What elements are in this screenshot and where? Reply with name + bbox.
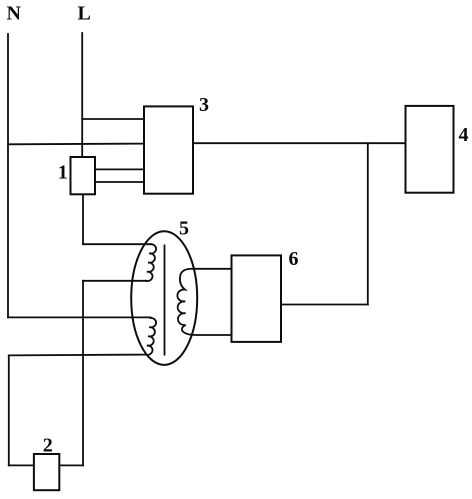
wire box3 to box4: [193, 142, 406, 144]
transformer ellipse 5: [131, 231, 197, 365]
wire upper winding bottom to corner: [83, 280, 146, 282]
wire right vertical drop: [367, 143, 369, 304]
svg-text:2: 2: [43, 435, 53, 457]
svg-text:5: 5: [179, 218, 189, 240]
svg-text:1: 1: [58, 161, 68, 183]
wire L to box3: [82, 118, 144, 120]
box 2: [34, 454, 59, 490]
winding secondary: [177, 269, 231, 335]
box 6: [232, 255, 282, 342]
wire lower winding bottom to left corner: [9, 354, 146, 357]
wire N vertical: [7, 34, 9, 317]
svg-text:4: 4: [459, 124, 469, 146]
wire upper winding top from stub: [83, 243, 151, 245]
box 3: [144, 106, 193, 193]
winding primary lower: [146, 318, 156, 355]
wire box1 bottom stub: [82, 194, 84, 244]
wire main horizontal N to box3: [8, 143, 144, 146]
svg-text:N: N: [7, 2, 22, 24]
box 4: [406, 106, 454, 193]
wire L vertical: [81, 33, 83, 157]
winding primary upper: [146, 244, 156, 281]
transformer core bar: [164, 245, 166, 354]
svg-text:L: L: [78, 3, 91, 25]
wire left outer vertical: [8, 355, 10, 465]
wire left mid vertical down to box2: [82, 281, 84, 466]
wire box2 right to vertical: [59, 464, 83, 466]
svg-text:6: 6: [289, 248, 299, 270]
box 1: [71, 157, 96, 194]
wire to box2 left: [9, 464, 34, 466]
wire box1 to box3 lower: [95, 181, 144, 183]
wire N corner to lower winding top: [8, 316, 151, 318]
wire box1 to box3 upper: [95, 168, 144, 170]
svg-text:3: 3: [199, 94, 209, 116]
wire box6 to right vertical: [281, 304, 368, 306]
